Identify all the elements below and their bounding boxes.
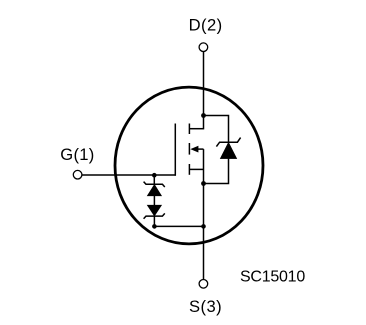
node zener-source junction right [201,224,206,229]
MOSFET body arrow stub [195,148,204,150]
zener body diode cathode bar [216,138,240,147]
zener D2 cathode bar [144,213,165,218]
wire between zeners [153,196,155,205]
MOSFET channel segment top [188,124,190,135]
zener D1 anode triangle [147,185,161,196]
zener D1 cathode bar [144,182,165,187]
zener D2 anode triangle [147,205,161,216]
terminal S pin 3 [199,280,208,289]
wire drain to body diode [204,116,229,143]
wire source vertical [203,184,205,280]
wire drain vertical [203,52,205,130]
zener body diode anode triangle [220,142,236,158]
node gate junction [152,173,157,178]
MOSFET channel segment bottom [188,164,190,175]
node drain junction [201,113,206,118]
terminal D pin 2 [199,43,208,52]
transistor package outline [115,87,263,244]
wire zener return horizontal [154,225,203,227]
svg-text:SC15010: SC15010 [240,269,305,286]
wire gate junction to zener D1 [153,175,155,184]
MOSFET drain stub [189,128,203,130]
node source junction [201,181,206,186]
svg-text:G(1): G(1) [60,145,94,164]
wire zener D2 to source rail [153,216,155,226]
svg-text:D(2): D(2) [189,16,223,35]
MOSFET body arrow head [190,146,198,153]
MOSFET gate line [174,124,176,176]
MOSFET channel segment middle [188,143,190,155]
wire gate horizontal [82,174,176,176]
terminal G pin 1 [73,170,82,179]
node zener-source junction left [152,224,157,229]
wire body diode to source node [204,159,229,184]
MOSFET source stub [189,168,203,170]
svg-text:S(3): S(3) [189,297,222,316]
wire body-source vertical [203,149,205,183]
